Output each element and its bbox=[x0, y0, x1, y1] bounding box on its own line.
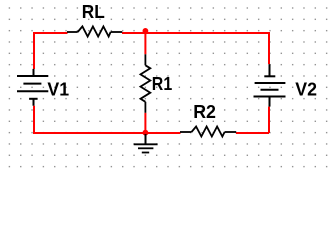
resistor RL bbox=[67, 26, 122, 36]
V1 negative terminal lead bbox=[33, 99, 35, 106]
RL pin 2 lead bbox=[111, 31, 123, 33]
wire: right rail V2 top bbox=[268, 32, 270, 64]
wire: top rail left of RL bbox=[34, 32, 68, 34]
svg-text:R2: R2 bbox=[193, 101, 216, 122]
wire: bottom rail right of R2 bbox=[236, 132, 269, 134]
V1 plate long (+) bbox=[17, 75, 48, 77]
V2 plate long (+) bbox=[254, 96, 286, 98]
R2 pin 2 lead bbox=[225, 131, 237, 133]
node junction bottom (R1/ground/bottom rail) bbox=[143, 130, 149, 136]
svg-text:RL: RL bbox=[82, 1, 105, 22]
ground bar long bbox=[134, 143, 158, 145]
V1 positive terminal lead bbox=[33, 69, 35, 76]
RL zigzag body bbox=[78, 26, 111, 36]
V2 plate short (-) bbox=[264, 75, 275, 77]
battery V2 bbox=[254, 64, 286, 106]
svg-text:V2: V2 bbox=[295, 79, 317, 100]
V2 plate long (+) inner bbox=[255, 82, 286, 84]
wire: left rail V1 top bbox=[33, 32, 35, 69]
resistor R1 (vertical) bbox=[141, 54, 151, 113]
grid dots bbox=[9, 7, 328, 167]
V1 plate short (-) bbox=[29, 98, 37, 100]
battery V1 bbox=[17, 69, 48, 106]
V2 negative terminal lead bbox=[269, 64, 271, 76]
R2 zigzag body bbox=[192, 127, 225, 137]
RL pin 1 lead bbox=[67, 31, 78, 33]
svg-text:V1: V1 bbox=[47, 79, 69, 100]
node junction top (R1/top rail) bbox=[143, 28, 149, 34]
R1 zigzag body bbox=[141, 65, 151, 102]
wire: R1 bottom bbox=[144, 113, 146, 133]
R2 pin 1 lead bbox=[180, 131, 192, 133]
ground bbox=[134, 134, 158, 153]
wire: bottom rail bbox=[33, 132, 181, 134]
V1 plate long (+) inner bbox=[17, 90, 48, 92]
V2 positive terminal lead bbox=[269, 97, 271, 107]
V1 plate medium (-) bbox=[23, 83, 41, 85]
svg-text:R1: R1 bbox=[152, 73, 172, 94]
ground bar medium bbox=[138, 147, 153, 149]
wire: left rail V1 bottom bbox=[33, 106, 35, 133]
V2 plate medium (-) bbox=[261, 89, 279, 91]
ground bar short bbox=[142, 152, 149, 154]
ground lead bbox=[145, 134, 147, 144]
wire: top rail right of RL bbox=[122, 32, 269, 34]
wire: right rail V2 bottom bbox=[268, 107, 270, 133]
wire: R1 top bbox=[144, 32, 146, 54]
R1 pin 1 lead bbox=[144, 54, 146, 65]
R1 pin 2 lead bbox=[144, 102, 146, 113]
resistor R2 bbox=[180, 127, 236, 137]
